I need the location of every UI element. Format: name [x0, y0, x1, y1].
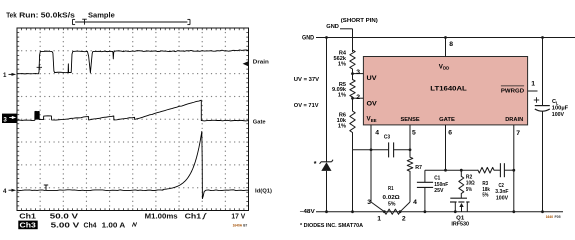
- svg-text:4: 4: [413, 199, 417, 206]
- svg-text:Ch1: Ch1: [19, 213, 36, 220]
- svg-text:50.0 V: 50.0 V: [50, 213, 79, 220]
- svg-text:Q1: Q1: [456, 216, 464, 222]
- svg-text:OV: OV: [367, 100, 378, 107]
- svg-text:SENSE: SENSE: [401, 117, 420, 123]
- svg-text:6: 6: [448, 129, 452, 136]
- svg-text:100V: 100V: [552, 112, 564, 118]
- svg-text:F05: F05: [555, 215, 561, 219]
- svg-text:2: 2: [402, 216, 406, 223]
- svg-text:DRAIN: DRAIN: [505, 117, 523, 123]
- svg-text:IRF530: IRF530: [451, 222, 469, 228]
- svg-text:8: 8: [449, 41, 453, 48]
- svg-text:Sample: Sample: [88, 13, 115, 20]
- svg-text:17 V: 17 V: [231, 213, 245, 220]
- svg-text:25V: 25V: [434, 188, 443, 194]
- svg-text:* DIODES INC. SMAT70A: * DIODES INC. SMAT70A: [300, 223, 363, 229]
- svg-text:1640: 1640: [546, 215, 554, 219]
- svg-text:3.3nF: 3.3nF: [495, 189, 509, 195]
- svg-text:0.02Ω: 0.02Ω: [383, 195, 401, 201]
- svg-text:Drain: Drain: [253, 59, 269, 65]
- svg-text:7: 7: [516, 130, 520, 137]
- svg-text:1.00 A: 1.00 A: [102, 223, 126, 230]
- svg-text:4: 4: [375, 129, 379, 136]
- svg-text:3: 3: [3, 116, 7, 123]
- svg-text:1: 1: [377, 216, 381, 223]
- svg-text:100µF: 100µF: [552, 105, 569, 111]
- svg-text:R1: R1: [388, 186, 394, 192]
- svg-text:1%: 1%: [338, 93, 346, 99]
- svg-text:M1.00ms: M1.00ms: [145, 213, 178, 220]
- svg-text:1%: 1%: [338, 124, 346, 130]
- svg-text:R7: R7: [415, 165, 422, 171]
- svg-text:Ch1: Ch1: [185, 213, 202, 220]
- svg-text:5%: 5%: [466, 187, 472, 193]
- svg-text:4: 4: [3, 188, 7, 195]
- svg-text:1: 1: [3, 72, 7, 79]
- svg-text:Run: 50.0kS/s: Run: 50.0kS/s: [19, 11, 75, 20]
- svg-text:B7: B7: [243, 223, 247, 227]
- svg-text:C1: C1: [434, 176, 440, 182]
- svg-text:Tek: Tek: [6, 11, 17, 20]
- svg-text:–48V: –48V: [300, 209, 315, 215]
- svg-text:Ch3: Ch3: [20, 223, 36, 230]
- svg-text:(SHORT PIN): (SHORT PIN): [341, 18, 378, 24]
- svg-text:LT1640AL: LT1640AL: [430, 86, 467, 93]
- svg-text:C2: C2: [499, 183, 504, 189]
- svg-text:R2: R2: [466, 174, 472, 180]
- svg-text:3: 3: [367, 199, 371, 206]
- svg-text:5: 5: [412, 129, 416, 136]
- svg-text:10Ω: 10Ω: [466, 181, 475, 187]
- svg-text:DD: DD: [443, 66, 449, 71]
- svg-text:1: 1: [531, 81, 535, 88]
- svg-text:UV: UV: [367, 75, 378, 82]
- svg-text:5%: 5%: [388, 201, 396, 207]
- svg-text:C3: C3: [384, 134, 390, 140]
- svg-text:GND: GND: [302, 35, 315, 41]
- svg-text:1%: 1%: [338, 62, 346, 68]
- svg-text:OV = 71V: OV = 71V: [294, 103, 319, 109]
- svg-text:UV = 37V: UV = 37V: [294, 77, 320, 83]
- svg-text:5%: 5%: [482, 193, 488, 199]
- svg-text:Id(Q1): Id(Q1): [255, 188, 272, 194]
- svg-text:2: 2: [356, 94, 360, 101]
- svg-text:5.00 V: 5.00 V: [51, 223, 80, 230]
- svg-text:3: 3: [356, 69, 360, 76]
- svg-text:1640A: 1640A: [233, 223, 243, 227]
- svg-text:Gate: Gate: [253, 119, 267, 125]
- svg-text:150nF: 150nF: [434, 182, 449, 188]
- svg-text:GND: GND: [326, 24, 339, 30]
- svg-text:PWRGD: PWRGD: [501, 88, 524, 94]
- svg-text:GATE: GATE: [439, 117, 455, 123]
- svg-text:100V: 100V: [496, 195, 508, 201]
- svg-text:Ch4: Ch4: [84, 223, 97, 230]
- svg-text:*: *: [314, 161, 317, 168]
- svg-text:EE: EE: [371, 118, 377, 123]
